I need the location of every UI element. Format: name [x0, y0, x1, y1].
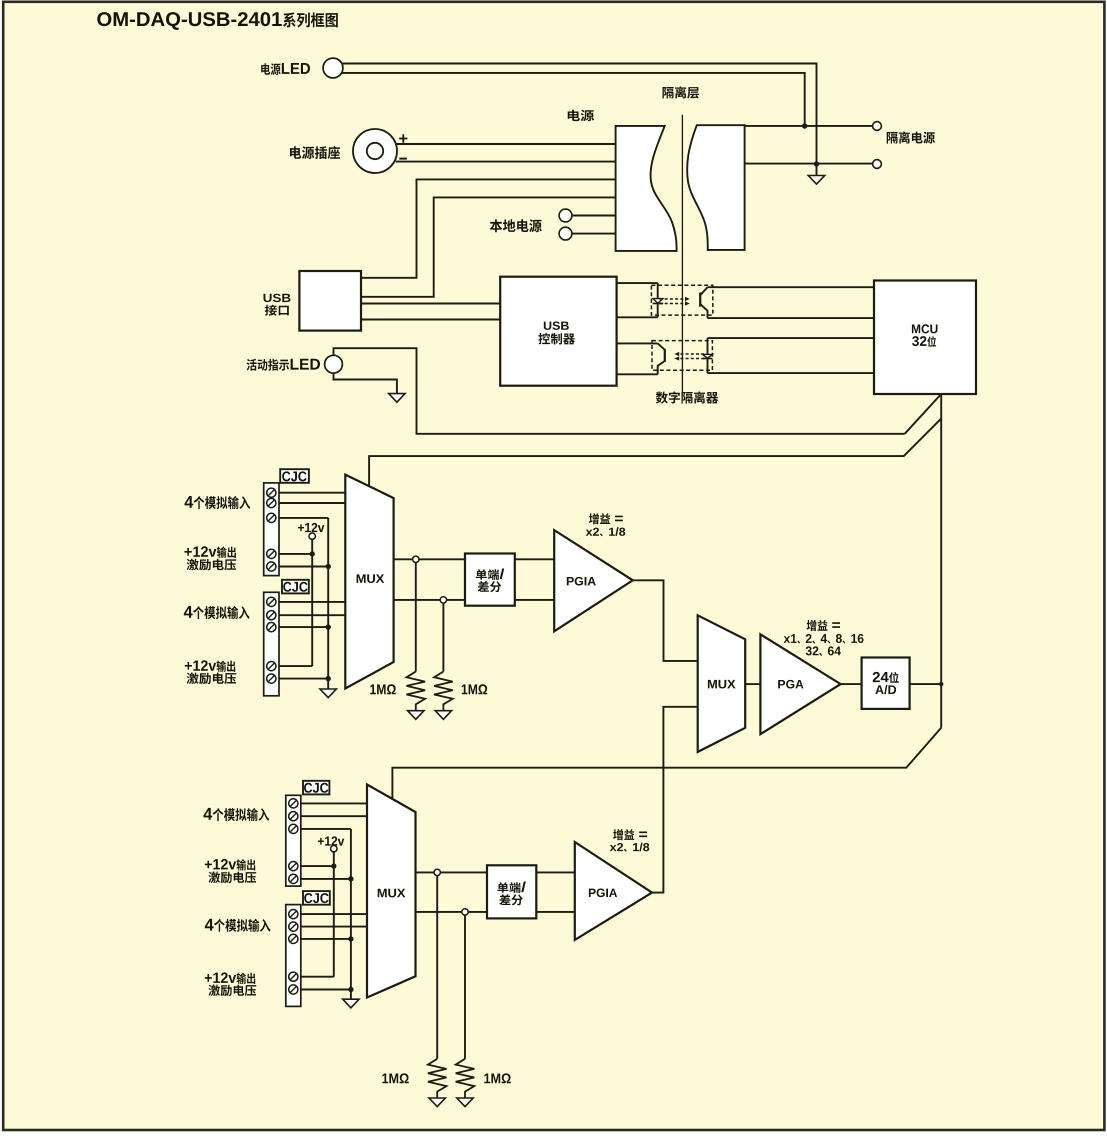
wire jack - to power block [396, 161, 616, 163]
opto1 light arrow top [660, 298, 685, 300]
opto2 phototransistor emitter [658, 361, 665, 374]
terminal local power 2 [559, 227, 572, 240]
wire MCU to MUX1 control [369, 419, 941, 487]
ground (R2) [435, 711, 451, 720]
label CJC 4 [304, 893, 328, 903]
wire MUX3 out+ to SE/diff2 [416, 871, 488, 873]
opto1 phototransistor emitter [700, 304, 707, 318]
ground (isolated) [808, 176, 824, 185]
wire AI2 ch1 to MUX1 [279, 601, 345, 603]
label 接口 [265, 305, 289, 316]
wire MUX1 out+ to SE/diff [394, 558, 465, 560]
wire USB interface to power block in3 [361, 179, 616, 277]
wire node B+ to R3 [436, 872, 438, 1058]
label USB (controller) [544, 322, 569, 330]
power LED [323, 58, 343, 78]
MUX3 [367, 785, 416, 998]
label 1MΩ (R1) [370, 684, 396, 694]
opto2 LED diode [703, 354, 713, 358]
label PGA [778, 680, 803, 689]
opto1 phototransistor collector [700, 287, 707, 295]
wire USB interface to power block in4 [361, 197, 616, 296]
resistor R3 1Mohm [428, 1059, 447, 1098]
wire SE/diff to PGIA1 - [515, 599, 554, 601]
label 1MΩ (R2) [462, 684, 487, 694]
24-bit A/D block [862, 658, 910, 709]
wire SE/diff2 to PGIA2 - [536, 911, 575, 913]
junction agnd A2 [326, 624, 331, 629]
label 数字隔离器 [656, 391, 718, 403]
opto-isolator channel 1 dashed box [651, 285, 712, 315]
MUX1 [345, 475, 393, 689]
wire AI1 ch1 to MUX1 [279, 492, 345, 494]
label 活动指示LED [247, 359, 320, 371]
wire bus to MUX3 control [392, 728, 941, 800]
terminal strip 4 [286, 905, 301, 1007]
label 1MΩ (R4) [484, 1073, 510, 1083]
wire AI1 cjc to agnd [279, 517, 328, 519]
label USB (interface) [264, 294, 291, 302]
label 隔离电源 [887, 131, 935, 143]
node B+ [434, 869, 440, 875]
MCU block [874, 281, 976, 395]
opto2 LED cathode lead [707, 359, 709, 374]
USB controller block [500, 277, 616, 386]
label 32、64 [806, 646, 841, 656]
junction bus / A-D output [939, 682, 943, 686]
wire AI2 cjc to agnd [279, 626, 328, 628]
terminal isolated power + [873, 122, 882, 131]
wire opto1 collector to MCU [708, 286, 875, 288]
label 隔离层 [663, 86, 700, 98]
junction +12v rail B [331, 863, 336, 868]
title OM-DAQ-USB-2401系列框图 [97, 12, 337, 30]
label 本地电源 [490, 219, 542, 232]
label CJC 2 [283, 582, 307, 592]
wire isolated power - [745, 163, 873, 165]
label +12v (A) [298, 523, 324, 532]
wire MUX2 out to PGA [745, 683, 760, 685]
opto1 light arrow bottom [660, 303, 685, 305]
label +12v (B) [318, 836, 344, 845]
opto-isolator channel 2 dashed box [652, 341, 712, 371]
CJC box 2 [282, 580, 309, 594]
node A- [440, 597, 446, 603]
junction agnd A3 [326, 676, 331, 681]
junction agnd A1 [326, 564, 331, 569]
screw terminals strip 2 [267, 597, 276, 606]
wire +12v rail B [333, 852, 335, 977]
wire opto1 emitter to MCU [708, 317, 875, 319]
op-amp PGA [760, 634, 840, 734]
opto1 LED cathode lead [657, 304, 659, 318]
label MUX 2 [708, 680, 736, 689]
wire BI1 ch1 to MUX3 [301, 802, 367, 804]
wire exc gnd A2 [279, 678, 328, 680]
label 控制器 [538, 333, 575, 345]
wire +12v out A1 [279, 553, 312, 555]
label 单端/ (2) [497, 882, 525, 893]
label 增益 = (PGA) [807, 620, 840, 631]
opto1 LED diode [653, 299, 663, 304]
label 24位 [873, 672, 899, 683]
label PGIA 1 [567, 577, 596, 586]
wire power-LED bottom to isolated power + [341, 73, 804, 126]
screw terminals strip 4 [289, 910, 298, 919]
junction at isolated power - line [814, 161, 819, 166]
single-ended/diff box 2 [487, 865, 536, 918]
wire PGA to A/D [841, 683, 862, 685]
wire USB iface to controller D+ [361, 303, 500, 305]
wire SE/diff2 to PGIA2 + [536, 871, 575, 873]
label MUX 3 [378, 889, 406, 898]
wire local power 1 [572, 215, 616, 217]
terminal +12v B [331, 846, 337, 852]
label + on jack wire [399, 134, 407, 142]
label 增益 = (PGIA1) [589, 513, 623, 524]
wire MCU down bus [940, 394, 942, 728]
terminal strip 1 [264, 483, 279, 576]
wire AI1 ch2 to MUX1 [279, 502, 345, 504]
label CJC 1 [282, 471, 306, 481]
wire AI2 ch2 to MUX1 [279, 614, 345, 616]
wire controller to opto2 collector [617, 342, 658, 344]
wire jack + to power block [396, 143, 616, 145]
label 激励电压 (B2) [209, 985, 257, 997]
label +12v输出 (A1) [185, 546, 236, 558]
label 4个模拟输入 (B1) [204, 808, 270, 821]
wire isolated power + [745, 125, 873, 127]
wire exc gnd B2 [301, 989, 351, 991]
opto2 LED anode lead [707, 338, 709, 354]
ground (R4) [457, 1098, 473, 1107]
wire controller to opto1 cathode [617, 316, 658, 318]
wire analog ground rail B [350, 829, 352, 999]
wire activity LED to MCU line [334, 348, 905, 434]
wire exc gnd B1 [301, 878, 351, 880]
opto2 light arrow top [680, 353, 705, 355]
opto2 phototransistor collector [658, 343, 665, 349]
opto2 LED cathode bar [703, 358, 713, 360]
wire USB iface to controller D- [361, 319, 500, 321]
ground (analog B) [343, 999, 359, 1008]
wire PGIA1 out to MUX2 [633, 580, 698, 661]
junction agnd B3 [348, 987, 353, 992]
wire BI1 cjc to agnd [301, 828, 351, 830]
label 单端/ (1) [476, 569, 504, 580]
op-amp PGIA2 [575, 842, 652, 940]
activity LED [325, 355, 343, 373]
USB interface block [299, 271, 361, 331]
label MCU [912, 324, 938, 333]
label 激励电压 (A2) [187, 673, 237, 685]
screw terminals strip 1 [267, 488, 276, 497]
label 差分 (1) [478, 581, 502, 592]
wire A/D output to bus [910, 683, 942, 685]
wire controller to opto1 anode [617, 282, 658, 284]
opto2 light arrow bottom [680, 358, 705, 360]
wire +12v out A2 [279, 665, 312, 667]
wire opto2 LED cathode to MCU [708, 372, 875, 374]
label 4个模拟输入 (A1) [185, 496, 251, 509]
label 差分 (2) [499, 894, 523, 905]
label 32位 [912, 336, 936, 347]
MUX2 [698, 615, 746, 752]
CJC box 4 [303, 891, 330, 905]
terminal +12v A [309, 533, 315, 539]
terminal isolated power - [873, 160, 882, 169]
label 电源LED [261, 63, 310, 75]
opto1 phototransistor base bar [699, 293, 701, 307]
wire +12v out B1 [301, 865, 334, 867]
label +12v输出 (B1) [205, 859, 255, 871]
label 电源插座 [290, 146, 340, 159]
resistor R2 1Mohm [434, 672, 453, 711]
label CJC 3 [304, 783, 328, 793]
wire MUX1 out- to SE/diff [394, 599, 465, 601]
label x2、1/8 (PGIA1) [586, 527, 626, 536]
label - on jack wire [399, 158, 407, 160]
label 1MΩ (R3) [382, 1073, 408, 1083]
label PGIA 2 [589, 889, 617, 898]
screw terminals strip 3 [289, 799, 298, 808]
wire exc gnd A1 [279, 566, 328, 568]
wire +12v out B2 [301, 976, 334, 978]
power supply block left half [616, 126, 677, 251]
wire MCU to opto2 LED anode [708, 337, 875, 339]
junction +12v rail A [310, 551, 315, 556]
opto1 LED anode lead [657, 283, 659, 299]
wire node A+ to R1 [415, 559, 417, 671]
wire BI2 ch2 to MUX3 [301, 926, 367, 928]
resistor R4 1Mohm [456, 1059, 475, 1098]
ground (activity LED) [389, 394, 405, 403]
label A/D [875, 685, 896, 694]
label 电源 [568, 110, 594, 121]
terminal strip 2 [264, 592, 279, 696]
wire BI1 ch2 to MUX3 [301, 815, 367, 817]
wire MCU to activity/USB line (diagonal) [905, 394, 942, 434]
single-ended/diff box 1 [465, 554, 515, 606]
CJC box 3 [303, 781, 329, 795]
label +12v输出 (A2) [185, 660, 235, 672]
isolation barrier dotted line [681, 115, 683, 393]
power supply block right half [687, 125, 744, 250]
CJC box 1 [280, 469, 309, 483]
wire analog ground rail A [327, 518, 329, 689]
wire node B- to R4 [464, 912, 466, 1059]
label x1、2、4、8、16 [784, 634, 864, 644]
wire +12v rail A [311, 539, 313, 666]
wire power-LED top to isolated ground [342, 64, 817, 176]
label 增益 = (PGIA2) [613, 829, 647, 840]
opto1 LED cathode bar [653, 303, 664, 305]
wire BI2 ch1 to MUX3 [301, 913, 367, 915]
label x2、1/8 (PGIA2) [610, 843, 650, 852]
op-amp PGIA1 [554, 530, 633, 631]
label 激励电压 (A1) [187, 559, 237, 571]
wire BI2 cjc to agnd [301, 938, 351, 940]
terminal strip 3 [286, 795, 301, 886]
wire MUX3 out- to SE/diff2 [416, 911, 488, 913]
wire node A- to R2 [442, 600, 444, 672]
terminal local power 1 [559, 209, 572, 222]
label MUX 1 [357, 574, 385, 583]
label 4个模拟输入 (A2) [184, 606, 250, 619]
wire local power 2 [572, 233, 616, 235]
wire SE/diff to PGIA1 + [515, 558, 554, 560]
ground (R1) [408, 711, 424, 720]
junction at isolated power + line [802, 123, 807, 128]
ground (R3) [429, 1098, 445, 1107]
resistor R1 1Mohm [407, 672, 426, 711]
node A+ [413, 556, 419, 562]
wire activity LED to ground [334, 373, 397, 394]
ground (analog A) [320, 689, 336, 698]
wire controller to opto2 emitter [617, 373, 658, 375]
label 4个模拟输入 (B2) [205, 919, 271, 932]
wire PGIA2 out to MUX2 [652, 707, 698, 893]
label +12v输出 (B2) [205, 972, 255, 984]
label 激励电压 (B1) [209, 872, 257, 884]
junction agnd B2 [348, 936, 353, 941]
junction agnd B1 [348, 876, 353, 881]
power jack [353, 129, 397, 173]
opto2 phototransistor base bar [664, 349, 666, 362]
node B- [462, 909, 468, 915]
